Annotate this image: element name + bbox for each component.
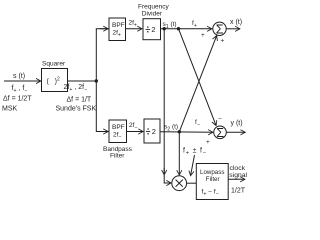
wire summer2 output y(t) — [226, 131, 245, 133]
svg-text:Squarer: Squarer — [42, 61, 66, 68]
svg-text:Lowpass: Lowpass — [200, 169, 224, 176]
svg-text:2: 2 — [151, 25, 155, 34]
svg-text:−: − — [218, 116, 222, 123]
frequency divider box D2 (bottom /2) — [144, 119, 160, 143]
svg-text:2f+: 2f+ — [129, 20, 137, 29]
svg-text:+: + — [206, 139, 210, 146]
wire diagonal s2 to summer1 — [179, 36, 216, 132]
svg-text:2: 2 — [152, 127, 156, 136]
bandpass filter BPF1 (2f+) — [109, 18, 126, 41]
label /2 top — [146, 26, 150, 32]
svg-text:+: + — [201, 32, 205, 39]
wire divider1 to summer1 — [161, 28, 212, 30]
squarer box — [42, 69, 68, 92]
summer U2 circle — [214, 126, 227, 139]
svg-text:f+ ± f−: f+ ± f− — [183, 148, 207, 157]
node s1 junction dot — [163, 27, 166, 30]
svg-text:f+ , f−: f+ , f− — [12, 85, 28, 94]
svg-text:Δf = 1/T: Δf = 1/T — [67, 97, 92, 104]
svg-text:Sunde's FSK: Sunde's FSK — [56, 106, 97, 113]
svg-text:Filter: Filter — [206, 176, 220, 183]
svg-text:Σ: Σ — [216, 23, 224, 37]
arrowhead into multiplier left — [165, 182, 171, 184]
svg-text:1/2T: 1/2T — [231, 188, 246, 195]
wire summer1 output x(t) — [226, 28, 240, 30]
svg-text:Σ: Σ — [216, 126, 224, 140]
frequency divider box D1 (top /2) — [143, 19, 161, 40]
wire into BPF1 arrowhead — [100, 28, 108, 30]
svg-text:y (t): y (t) — [231, 120, 243, 127]
wire squarer output — [68, 80, 97, 82]
svg-text:clock: clock — [230, 165, 246, 172]
wire divider2 to summer2 — [160, 131, 213, 134]
wire vertical junction bus — [96, 29, 109, 132]
wire BPF2 to divider2 — [127, 131, 143, 133]
svg-text:BPF: BPF — [112, 124, 125, 131]
svg-text:s2 (t): s2 (t) — [164, 124, 178, 133]
bandpass filter BPF2 (2f-) — [109, 120, 127, 143]
svg-text:x (t): x (t) — [230, 19, 242, 26]
svg-text:s (t): s (t) — [13, 73, 25, 80]
svg-text:f+: f+ — [192, 20, 197, 29]
lowpass filter box LPF — [196, 164, 228, 200]
svg-text:BPF: BPF — [112, 22, 125, 29]
label /2 bottom — [146, 128, 150, 134]
svg-text:Δf = 1/2T: Δf = 1/2T — [3, 96, 32, 103]
svg-text:2f−: 2f− — [129, 122, 137, 131]
svg-text:signal: signal — [229, 172, 247, 179]
wire diagonal s1 to summer2 — [179, 29, 217, 126]
node s2 junction dot — [178, 130, 181, 133]
wire s1 vertical to multiplier — [164, 29, 171, 183]
multiplier M1 circle — [172, 176, 187, 191]
wire input s(t) — [4, 80, 41, 82]
multiplier X symbol — [176, 180, 183, 187]
annotation arrow f+-f- to wire — [191, 155, 195, 175]
wire BPF1 to divider1 — [126, 28, 142, 30]
svg-text:+: + — [221, 38, 225, 45]
svg-text:Filter: Filter — [110, 153, 125, 160]
arrowhead mid vertical — [163, 168, 165, 175]
svg-text:Divider: Divider — [142, 11, 163, 18]
wire multiplier to LPF — [187, 182, 197, 184]
svg-text:Frequency: Frequency — [138, 4, 169, 11]
wire s2 vertical to multiplier — [178, 132, 180, 175]
node diagonal takeoff dot top — [177, 27, 180, 30]
svg-text:MSK: MSK — [2, 106, 18, 113]
wire into BPF2 arrowhead — [100, 131, 108, 133]
wire LPF output clock — [228, 178, 245, 180]
summer U1 circle — [213, 22, 226, 35]
svg-text:f−: f− — [195, 119, 200, 128]
node junction J1 — [95, 79, 98, 82]
